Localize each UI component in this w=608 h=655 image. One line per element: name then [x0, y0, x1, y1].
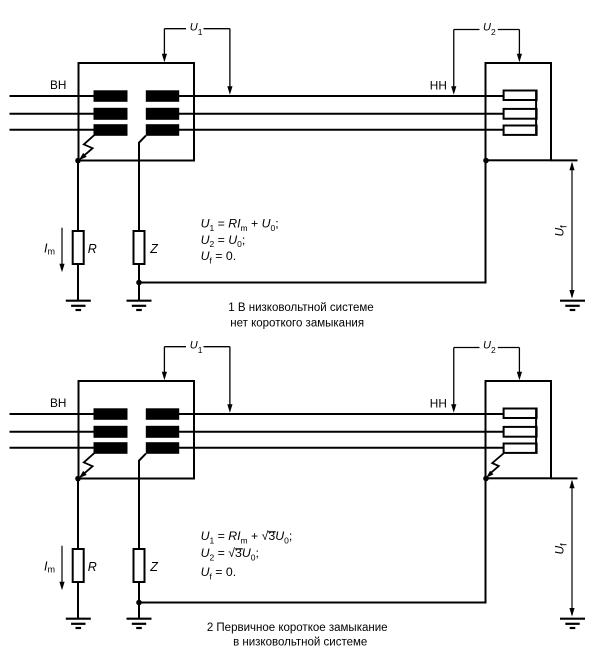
wire stub to Uf (diagram 1): [551, 159, 578, 161]
wire LV neutral lead to Z (diagram 2): [139, 454, 146, 549]
svg-text:Uf​ = 0.: Uf​ = 0.: [201, 249, 237, 265]
resistor R (diagram 1): [73, 231, 84, 264]
svg-text:Z: Z: [149, 560, 158, 574]
LV winding W2 of T2 (diagram 2): [146, 408, 179, 454]
svg-text:R: R: [88, 242, 97, 256]
wire return bottom (diagram 2): [139, 602, 487, 604]
wire riser right (diagram 1): [485, 161, 487, 284]
svg-text:R: R: [88, 560, 97, 574]
transformer T2 outline (diagram 2): [79, 381, 195, 479]
load resistor 2 (diagram 2): [504, 427, 537, 437]
fault zigzag arrow at load box (diagram 2): [486, 454, 503, 478]
junction node Z-return (diagram 2): [136, 600, 142, 606]
ground below R (diagram 1): [66, 301, 91, 310]
HV winding W1 of T2 (diagram 2): [94, 408, 128, 454]
wire load common connector (diagram 2): [535, 409, 537, 453]
wire Z to ground (diagram 2): [138, 582, 140, 619]
wire phase B LV side (diagram 2): [146, 431, 504, 433]
junction node Z-return (diagram 1): [136, 280, 142, 286]
wire phase A LV side (diagram 2): [146, 413, 504, 415]
wire Z to ground (diagram 1): [138, 264, 140, 301]
equation U2 (diagram 2): [201, 546, 259, 562]
resistor Z (diagram 1): [134, 231, 145, 264]
wire riser right (diagram 2): [485, 479, 487, 604]
HV winding W1 of T1 (diagram 1): [94, 90, 128, 136]
voltage arrow Uf (diagram 2): [569, 480, 574, 617]
wire neutral to R (diagram 2): [77, 479, 79, 549]
junction node load box corner (diagram 1): [483, 158, 489, 164]
voltage arrow Uf (diagram 1): [569, 162, 574, 299]
svg-text:ВН: ВН: [50, 78, 66, 92]
load box LV network (diagram 2): [486, 381, 552, 478]
junction node load box corner (diagram 2): [483, 476, 489, 482]
measurement bracket U2 (diagram 2): [451, 348, 522, 413]
equation U1 (diagram 2): [201, 529, 293, 545]
svg-text:в низковольтной системе: в низковольтной системе: [233, 637, 367, 649]
wire phase B HV side (diagram 1): [10, 113, 128, 115]
load resistor 3 (diagram 2): [504, 444, 537, 453]
svg-text:нет короткого замыкания: нет короткого замыкания: [230, 317, 364, 329]
wire phase A LV side (diagram 1): [146, 95, 504, 97]
wire neutral to R (diagram 1): [77, 161, 79, 231]
load resistor 2 (diagram 1): [504, 109, 537, 119]
ground below Z (diagram 1): [127, 301, 152, 310]
wire R to ground (diagram 1): [77, 264, 79, 301]
load resistor 1 (diagram 1): [504, 91, 537, 101]
resistor R (diagram 2): [73, 549, 84, 582]
wire phase C LV side (diagram 2): [146, 447, 504, 449]
ground below Z (diagram 2): [127, 619, 152, 628]
wire phase C HV side (diagram 2): [10, 447, 128, 449]
wire load common connector (diagram 1): [535, 91, 537, 135]
wire phase A HV side (diagram 1): [10, 95, 128, 97]
svg-text:Z: Z: [149, 242, 158, 256]
load resistor 3 (diagram 1): [504, 126, 537, 135]
junction node transformer neutral (diagram 2): [75, 476, 81, 482]
wire phase B LV side (diagram 1): [146, 113, 504, 115]
ground below Uf (diagram 1): [560, 301, 585, 310]
resistor Z (diagram 2): [134, 549, 145, 582]
fault zigzag arrow at transformer neutral (diagram 1): [79, 135, 95, 161]
svg-text:ВН: ВН: [50, 396, 66, 410]
LV winding W2 of T1 (diagram 1): [146, 90, 179, 136]
svg-text:Uf​ = 0.: Uf​ = 0.: [201, 565, 237, 581]
measurement bracket U1 (diagram 2): [162, 347, 233, 413]
current arrow Im (diagram 1): [59, 228, 64, 273]
measurement bracket U1 (diagram 1): [162, 29, 233, 95]
junction node transformer neutral (diagram 1): [75, 158, 81, 164]
svg-text:НН: НН: [430, 396, 447, 410]
svg-text:2 Первичное короткое замыкание: 2 Первичное короткое замыкание: [207, 622, 388, 634]
wire stub to Uf (diagram 2): [551, 477, 578, 479]
wire phase B HV side (diagram 2): [10, 431, 128, 433]
ground below R (diagram 2): [66, 619, 91, 628]
wire phase C LV side (diagram 1): [146, 129, 504, 131]
svg-text:U2​ = √3U0​;: U2​ = √3U0​;: [201, 546, 259, 562]
ground below Uf (diagram 2): [560, 619, 585, 628]
wire return bottom (diagram 1): [139, 282, 487, 284]
svg-text:НН: НН: [430, 78, 447, 92]
svg-text:1 В низковольтной системе: 1 В низковольтной системе: [228, 302, 373, 314]
wire phase A HV side (diagram 2): [10, 413, 128, 415]
wire phase C HV side (diagram 1): [10, 129, 128, 131]
load resistor 1 (diagram 2): [504, 409, 537, 419]
load box LV network (diagram 1): [486, 63, 552, 160]
measurement bracket U2 (diagram 1): [451, 30, 522, 95]
wire R to ground (diagram 2): [77, 582, 79, 619]
current arrow Im (diagram 2): [59, 546, 64, 591]
transformer T1 outline (diagram 1): [79, 63, 195, 161]
wire LV neutral lead to Z (diagram 1): [139, 136, 146, 231]
fault zigzag arrow at transformer neutral (diagram 2): [79, 453, 95, 479]
